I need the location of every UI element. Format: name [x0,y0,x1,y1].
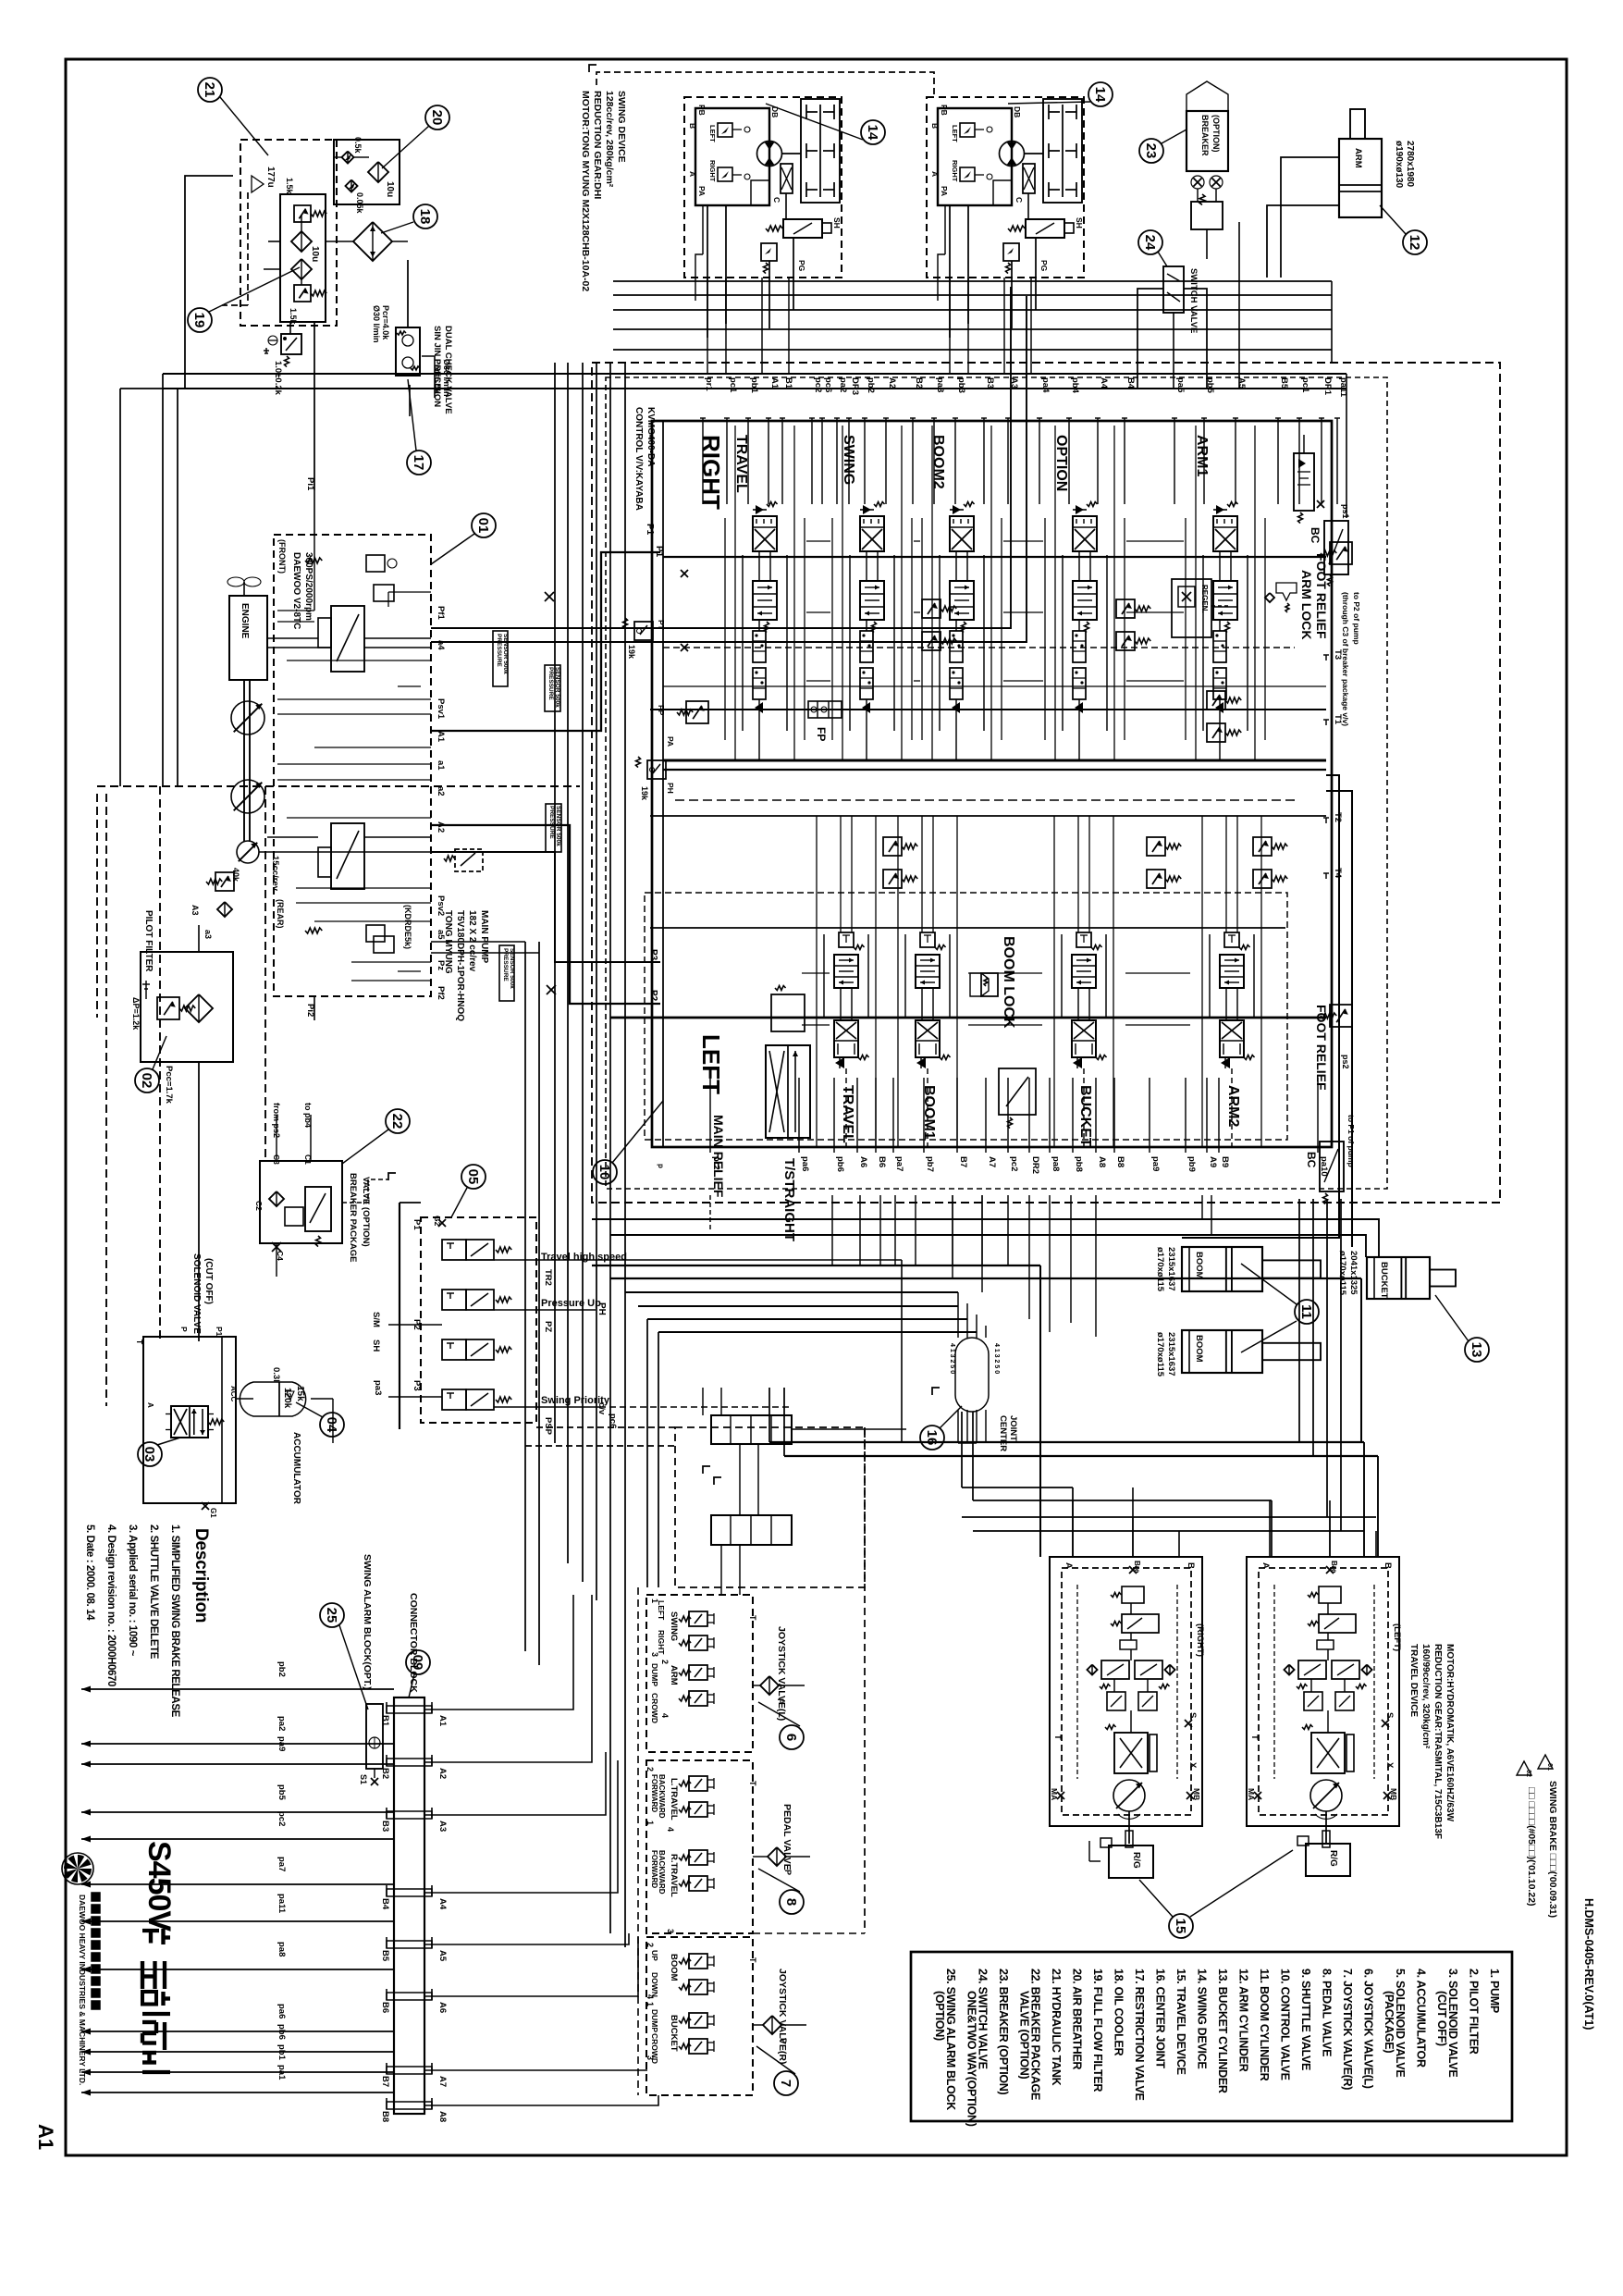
svg-text:01: 01 [1546,1763,1553,1771]
svg-text:pa3: pa3 [373,1380,383,1395]
svg-text:SWING DEVICE: SWING DEVICE [616,91,627,163]
svg-text:A2: A2 [437,1768,448,1779]
svg-text:MAIN RELIEF: MAIN RELIEF [711,1115,726,1198]
svg-text:JOYSTICK VALVE(L): JOYSTICK VALVE(L) [776,1626,787,1721]
svg-text:pb1: pb1 [749,377,759,394]
svg-text:LEFT: LEFT [657,1600,666,1621]
svg-text:24: 24 [1142,235,1158,251]
svg-text:3. Applied serial no. : 1090 ~: 3. Applied serial no. : 1090 ~ [127,1524,138,1657]
svg-text:160/99cc/rev, 320kg/cm²: 160/99cc/rev, 320kg/cm² [1420,1644,1431,1749]
svg-text:23. BREAKER (OPTION): 23. BREAKER (OPTION) [997,1969,1010,2095]
svg-text:DR1: DR1 [1322,377,1333,396]
svg-text:21. HYDRAULIC TANK: 21. HYDRAULIC TANK [1050,1969,1063,2086]
svg-text:BREAKER: BREAKER [1200,115,1210,156]
svg-text:MOTOR:TONG MYUNG M2X128CHB-10A: MOTOR:TONG MYUNG M2X128CHB-10A-02 [580,91,591,291]
svg-text:PB: PB [697,105,707,116]
svg-text:ARM: ARM [669,1665,679,1685]
svg-text:FOOT RELIEF: FOOT RELIEF [1314,1005,1329,1091]
svg-text:S: S [1384,1712,1395,1718]
svg-text:177u: 177u [265,167,276,188]
svg-text:B: B [1383,1562,1393,1569]
svg-text:BOOM LOCK: BOOM LOCK [1001,936,1016,1029]
svg-text:22: 22 [389,1114,405,1129]
svg-text:RIGHT: RIGHT [697,435,725,510]
svg-text:UP: UP [650,1950,659,1961]
svg-text:CONTROL V/V:KAYABA: CONTROL V/V:KAYABA [633,407,644,511]
svg-text:03: 03 [141,1447,157,1463]
svg-text:PG: PG [797,260,806,272]
svg-text:T3: T3 [1333,649,1343,660]
svg-text:A5: A5 [1236,377,1247,389]
svg-text:pc6: pc6 [823,377,833,392]
svg-text:pa9: pa9 [1150,1156,1161,1171]
svg-text:18: 18 [417,209,433,225]
svg-text:CENTER: CENTER [998,1415,1008,1451]
svg-text:3: 3 [650,1652,659,1657]
svg-text:B6: B6 [877,1156,887,1167]
svg-text:3: 3 [646,2055,655,2060]
svg-text:TRAVEL DEVICE: TRAVEL DEVICE [1408,1644,1419,1717]
svg-text:PP: PP [657,705,666,716]
svg-text:BC: BC [1305,1152,1318,1168]
svg-text:11. BOOM CYLINDER: 11. BOOM CYLINDER [1258,1969,1271,2081]
svg-text:A7: A7 [987,1156,997,1167]
svg-text:PRESSURE: PRESSURE [496,634,502,667]
svg-text:P1: P1 [412,1219,422,1230]
svg-text:P1: P1 [654,546,664,558]
svg-text:SWITCH VALVE: SWITCH VALVE [1188,268,1199,333]
svg-text:A1: A1 [34,2124,57,2150]
svg-text:DUAL CHECK VALVE: DUAL CHECK VALVE [443,326,453,414]
svg-text:SENSOR 500k: SENSOR 500k [509,948,515,989]
svg-text:Pi1: Pi1 [305,477,315,491]
svg-text:T/STRAIGHT: T/STRAIGHT [781,1158,797,1241]
svg-text:15. TRAVEL DEVICE: 15. TRAVEL DEVICE [1174,1969,1187,2075]
svg-text:BOOM: BOOM [669,1954,679,1981]
svg-text:SH: SH [1075,217,1084,228]
svg-text:BREAKER PACKAGE: BREAKER PACKAGE [348,1173,358,1262]
svg-text:DAEWOO V2-8TC: DAEWOO V2-8TC [291,552,301,629]
svg-text:BACKWARD: BACKWARD [658,1774,666,1819]
svg-text:SOLENOID VALVE: SOLENOID VALVE [191,1253,202,1334]
svg-text:T: T [748,1615,757,1621]
svg-text:01: 01 [475,518,491,534]
svg-text:pa7: pa7 [894,1156,904,1171]
svg-text:DOWN: DOWN [650,1972,659,1997]
svg-text:pb2: pb2 [866,377,876,393]
svg-text:PH: PH [596,1302,607,1315]
svg-text:RIGHT: RIGHT [708,160,717,182]
svg-text:SENSOR 500k: SENSOR 500k [502,634,509,674]
svg-text:A3: A3 [437,1821,448,1832]
svg-text:H.DMS-0405-REV.0(AT1): H.DMS-0405-REV.0(AT1) [1582,1898,1595,2030]
svg-text:pa2: pa2 [838,377,848,392]
svg-text:2315x1637: 2315x1637 [1166,1332,1176,1376]
svg-text:(REAR): (REAR) [276,899,285,929]
svg-text:DR3: DR3 [850,377,860,395]
svg-text:JOINT: JOINT [1008,1415,1018,1441]
svg-text:Psv1: Psv1 [436,698,446,720]
svg-text:pa6: pa6 [277,2004,287,2018]
svg-text:T: T [1052,1734,1063,1740]
svg-text:LEFT: LEFT [708,125,717,142]
svg-text:(CUT OFF): (CUT OFF) [1435,1991,1448,2046]
svg-text:(CUT OFF): (CUT OFF) [203,1258,214,1304]
svg-text:T: T [748,1957,757,1963]
svg-text:S450V: S450V [141,1841,177,1932]
svg-text:A8: A8 [437,2111,448,2122]
svg-text:BOOM: BOOM [1194,1252,1204,1279]
svg-text:pb5: pb5 [277,1784,287,1801]
svg-text:ø170xø115: ø170xø115 [1155,1332,1165,1377]
svg-text:BUCKET: BUCKET [1077,1085,1093,1147]
svg-text:05: 05 [465,1169,481,1185]
svg-text:14: 14 [1092,87,1108,103]
svg-text:JOYSTICK VALVE(R): JOYSTICK VALVE(R) [777,1969,788,2064]
svg-text:1. SIMPLIFIED SWING BRAKE RELE: 1. SIMPLIFIED SWING BRAKE RELEASE [169,1524,180,1718]
svg-text:4 1 3 2 5 0: 4 1 3 2 5 0 [949,1343,955,1374]
svg-text:Ø30 l/min: Ø30 l/min [372,305,381,343]
svg-text:X: X [1384,1762,1395,1769]
svg-text:1: 1 [650,1599,659,1603]
svg-text:ps2: ps2 [1341,1055,1350,1069]
svg-text:pa5: pa5 [1175,377,1186,393]
svg-text:ø170xø115: ø170xø115 [1155,1247,1165,1292]
svg-text:17. RESTRICTION VALVE: 17. RESTRICTION VALVE [1133,1969,1146,2101]
svg-text:P2: P2 [648,990,658,1002]
svg-text:FORWARD: FORWARD [650,1850,658,1888]
svg-text:PRESSURE: PRESSURE [548,806,555,839]
svg-text:PA: PA [940,186,949,196]
svg-text:B1: B1 [380,1715,390,1727]
svg-text:PG: PG [1039,260,1049,272]
svg-text:ø190xø130: ø190xø130 [1394,141,1404,189]
svg-text:S1: S1 [359,1774,368,1784]
svg-text:pa11: pa11 [277,1894,287,1914]
svg-text:04: 04 [324,1417,339,1433]
svg-text:120k: 120k [282,1388,292,1409]
svg-text:VALVE (OPTION): VALVE (OPTION) [1018,1991,1031,2079]
svg-text:20. AIR BREATHER: 20. AIR BREATHER [1071,1969,1084,2069]
svg-text:A4: A4 [437,1898,448,1910]
svg-text:B8: B8 [380,2111,390,2122]
svg-text:2: 2 [660,1660,670,1664]
svg-text:SH: SH [371,1339,381,1352]
svg-text:ARM LOCK: ARM LOCK [1299,570,1314,639]
svg-text:pb9: pb9 [1187,1156,1197,1172]
svg-text:13: 13 [1469,1342,1484,1358]
svg-text:3: 3 [666,1929,675,1933]
svg-text:10u: 10u [310,246,320,262]
svg-text:PRESSURE: PRESSURE [547,667,554,700]
svg-text:10. CONTROL VALVE: 10. CONTROL VALVE [1279,1969,1292,2080]
svg-text:12. ARM CYLINDER: 12. ARM CYLINDER [1237,1969,1250,2072]
svg-text:P: P [783,1870,793,1875]
svg-text:LEFT: LEFT [951,125,959,142]
svg-text:B9: B9 [1220,1156,1230,1167]
svg-text:Pcr=4.0k: Pcr=4.0k [381,305,390,340]
svg-text:pc1: pc1 [728,377,738,393]
svg-text:20: 20 [429,110,445,126]
svg-text:7: 7 [778,2080,793,2087]
svg-text:B2: B2 [914,377,924,389]
svg-text:B7: B7 [380,2076,390,2087]
svg-text:SH: SH [832,217,842,228]
svg-text:14: 14 [865,125,880,141]
svg-text:2: 2 [646,1767,655,1771]
svg-text:pa4: pa4 [1040,377,1051,393]
svg-text:1. PUMP: 1. PUMP [1488,1969,1501,2013]
svg-text:19: 19 [191,313,207,328]
svg-text:pb5: pb5 [1205,377,1215,394]
svg-text:A3: A3 [191,905,200,916]
svg-text:2041x1325: 2041x1325 [1348,1251,1359,1295]
svg-text:10: 10 [596,1165,612,1180]
svg-text:ARM2: ARM2 [1225,1085,1241,1127]
svg-text:B: B [930,123,940,129]
svg-text:T: T [135,1339,144,1345]
svg-text:02: 02 [139,1073,154,1089]
svg-text:6: 6 [783,1734,799,1741]
svg-text:c/v: c/v [596,1402,607,1415]
svg-text:KVMG400-DA: KVMG400-DA [646,407,656,466]
svg-text:SIN JIN PRECISION: SIN JIN PRECISION [432,326,442,407]
svg-text:pa8: pa8 [277,1942,287,1957]
svg-text:p: p [657,1164,665,1168]
svg-text:pc6: pc6 [608,1413,618,1428]
svg-text:ONE&TWO WAY(OPTION): ONE&TWO WAY(OPTION) [965,1991,978,2127]
svg-text:1.5k: 1.5k [285,178,294,195]
svg-text:B4: B4 [380,1898,390,1910]
svg-text:B8: B8 [1115,1156,1125,1167]
svg-text:(PACKAGE): (PACKAGE) [1383,1991,1396,2053]
svg-text:4: 4 [660,1713,670,1718]
svg-text:T5V180DPH-1POR-HNOQ: T5V180DPH-1POR-HNOQ [455,910,465,1021]
svg-text:B5: B5 [1279,377,1289,389]
svg-text:PT: PT [657,620,666,631]
svg-text:09: 09 [410,1655,425,1671]
svg-text:1: 1 [646,2002,655,2006]
svg-text:13. BUCKET CYLINDER: 13. BUCKET CYLINDER [1216,1969,1229,2093]
svg-text:S/M: S/M [371,1312,381,1327]
svg-text:5. Date : 2000. 08. 14: 5. Date : 2000. 08. 14 [84,1524,95,1621]
svg-text:R.TRAVEL: R.TRAVEL [669,1854,679,1897]
svg-text:MAIN PUMP: MAIN PUMP [479,910,489,964]
svg-text:ps1: ps1 [1341,504,1350,519]
svg-text:21: 21 [202,82,217,98]
svg-text:pa2: pa2 [277,1716,287,1731]
svg-text:B6: B6 [380,2002,390,2013]
svg-text:CROWD: CROWD [650,1693,659,1723]
svg-text:A: A [1064,1562,1074,1569]
svg-text:pb7: pb7 [925,1156,935,1172]
svg-text:(OPTION): (OPTION) [933,1991,946,2041]
svg-text:10u: 10u [385,181,395,197]
svg-text:8. PEDAL VALVE: 8. PEDAL VALVE [1321,1969,1334,2056]
svg-text:15cc/rev: 15cc/rev [270,856,280,892]
svg-text:18. OIL COOLER: 18. OIL COOLER [1113,1969,1125,2055]
svg-text:128cc/rev, 280kg/cm²: 128cc/rev, 280kg/cm² [604,91,615,188]
svg-text:FOOT RELIEF: FOOT RELIEF [1314,553,1329,639]
svg-text:0.05k: 0.05k [355,192,364,215]
svg-text:pa8: pa8 [1051,1156,1061,1171]
svg-text:B: B [688,123,697,129]
svg-text:a2: a2 [436,786,446,796]
svg-text:PB: PB [940,105,949,116]
svg-text:A3: A3 [1009,377,1019,389]
svg-text:pb2: pb2 [277,1661,287,1677]
svg-text:2: 2 [646,1943,655,1947]
svg-text:25: 25 [324,1608,339,1623]
svg-text:A1: A1 [437,1715,448,1727]
svg-text:A5: A5 [437,1950,448,1962]
svg-text:C2: C2 [254,1201,264,1211]
svg-text:TRAVEL: TRAVEL [840,1085,855,1143]
svg-text:B5: B5 [380,1950,390,1962]
svg-text:19k: 19k [627,645,636,660]
svg-text:FP: FP [815,727,828,741]
svg-text:L.TRAVEL: L.TRAVEL [669,1778,679,1821]
svg-text:PILOT FILTER: PILOT FILTER [143,910,154,972]
svg-text:BUCKET: BUCKET [1379,1262,1389,1299]
svg-text:1.0±0.2k: 1.0±0.2k [273,361,283,396]
svg-text:DUMP: DUMP [650,1663,659,1686]
svg-text:a1: a1 [436,760,446,771]
svg-text:A: A [688,171,697,177]
svg-text:BUCKET: BUCKET [669,2015,679,2052]
svg-text:Pf2: Pf2 [436,986,446,1000]
svg-text:19k: 19k [640,786,649,801]
svg-text:2780x1980: 2780x1980 [1405,141,1415,187]
svg-text:R/G: R/G [1131,1852,1141,1869]
svg-text:11: 11 [1298,1304,1314,1319]
svg-text:Pf1: Pf1 [436,606,446,621]
svg-text:ACCUMULATOR: ACCUMULATOR [291,1432,301,1505]
svg-text:pc2: pc2 [813,377,823,392]
svg-text:2. SHUTTLE VALVE DELETE: 2. SHUTTLE VALVE DELETE [148,1524,159,1660]
svg-text:4: 4 [646,1994,655,1999]
svg-text:pc1: pc1 [1300,377,1310,393]
svg-text:23: 23 [1143,143,1159,159]
svg-text:PSP: PSP [543,1417,553,1436]
svg-text:PZ: PZ [543,1321,553,1332]
svg-text:pc2: pc2 [1009,1156,1019,1171]
svg-text:Pcc=1.7k: Pcc=1.7k [164,1066,174,1105]
svg-text:19. FULL FLOW FILTER: 19. FULL FLOW FILTER [1091,1969,1104,2092]
svg-text:2. PILOT FILTER: 2. PILOT FILTER [1468,1969,1481,2055]
svg-text:A1: A1 [436,731,446,743]
svg-text:12: 12 [1407,235,1422,251]
svg-text:pb8: pb8 [1074,1156,1084,1172]
svg-text:ARM: ARM [1353,148,1363,168]
svg-text:15: 15 [1173,1919,1188,1934]
svg-text:8: 8 [783,1898,799,1906]
svg-text:pa3: pa3 [935,377,945,392]
svg-text:VALVE (OPTION): VALVE (OPTION) [361,1177,371,1247]
svg-text:C: C [1014,197,1024,203]
svg-text:(OPTION): (OPTION) [1211,115,1221,153]
svg-text:2315x1637: 2315x1637 [1166,1247,1176,1291]
svg-text:Travel high speed: Travel high speed [541,1252,627,1263]
svg-text:T2: T2 [1333,812,1343,822]
svg-text:□□ □□□□(#05□□)('01.10.22): □□ □□□□(#05□□)('01.10.22) [1526,1787,1537,1907]
svg-text:A9: A9 [1208,1156,1218,1167]
svg-text:SWING: SWING [669,1611,679,1641]
svg-text:REGEN.: REGEN. [1200,585,1209,613]
svg-text:9. SHUTTLE VALVE: 9. SHUTTLE VALVE [1299,1969,1312,2070]
svg-text:pb6: pb6 [277,2024,287,2040]
svg-text:ΔP=1.2k: ΔP=1.2k [131,997,141,1031]
svg-text:17: 17 [411,455,426,471]
svg-text:DAEWOO HEAVY INDUSTRIES & MACH: DAEWOO HEAVY INDUSTRIES & MACHINERY LTD. [78,1895,87,2085]
svg-text:pb4: pb4 [1070,377,1080,394]
svg-text:a3: a3 [203,930,213,939]
svg-text:pc2: pc2 [277,1811,287,1826]
svg-text:BOOM: BOOM [1194,1335,1204,1363]
svg-text:4. ACCUMULATOR: 4. ACCUMULATOR [1415,1969,1428,2068]
svg-text:pa1: pa1 [277,2065,287,2080]
svg-text:P1: P1 [215,1327,224,1337]
svg-text:BC: BC [1309,527,1322,544]
svg-text:Description: Description [191,1528,211,1623]
svg-text:6. JOYSTICK VALVE(L): 6. JOYSTICK VALVE(L) [1362,1969,1375,2089]
svg-text:4: 4 [666,1827,675,1832]
svg-text:ENGINE: ENGINE [240,603,250,639]
svg-text:4. Design revision no. : 2000H: 4. Design revision no. : 2000H0670 [105,1524,117,1686]
svg-text:14. SWING DEVICE: 14. SWING DEVICE [1196,1969,1209,2068]
svg-text:MOTOR:HYDROMATIK, A6VE160HZ/63: MOTOR:HYDROMATIK, A6VE160HZ/63W [1445,1644,1455,1822]
svg-text:DB: DB [1013,106,1022,117]
svg-text:B4: B4 [1125,377,1136,389]
svg-text:DR2: DR2 [1030,1156,1040,1174]
svg-text:ø170xø115: ø170xø115 [1337,1251,1347,1296]
svg-text:(LEFT): (LEFT) [1392,1623,1402,1651]
svg-text:pb3: pb3 [956,377,966,393]
svg-text:4 1 3 2 5 0: 4 1 3 2 5 0 [993,1343,1000,1374]
svg-text:pb1: pb1 [277,2044,287,2061]
svg-text:A1: A1 [769,377,780,389]
svg-text:G1: G1 [209,1508,217,1518]
svg-text:T1: T1 [1333,714,1343,725]
svg-text:SWING ALARM BLOCK(OPT.): SWING ALARM BLOCK(OPT.) [362,1554,373,1690]
svg-text:P3: P3 [648,949,658,961]
svg-text:A: A [930,171,940,177]
svg-text:A: A [146,1402,154,1408]
svg-text:LEFT: LEFT [697,1034,725,1094]
svg-text:pa6: pa6 [800,1156,810,1171]
svg-text:P: P [179,1327,189,1332]
svg-text:T: T [1249,1734,1260,1740]
svg-text:B3: B3 [985,377,995,389]
svg-text:1: 1 [646,1821,655,1825]
svg-text:FORWARD: FORWARD [650,1774,658,1812]
svg-text:X: X [1187,1762,1198,1769]
svg-text:C: C [772,197,781,203]
svg-text:A2: A2 [887,377,897,389]
svg-text:BACKWARD: BACKWARD [658,1850,666,1895]
svg-text:16. CENTER JOINT: 16. CENTER JOINT [1154,1969,1167,2068]
svg-text:B1: B1 [783,377,793,389]
svg-text:PEDAL VALVE: PEDAL VALVE [781,1804,793,1870]
svg-text:PA: PA [666,736,675,747]
svg-text:pa7: pa7 [277,1857,287,1871]
svg-text:T4: T4 [1333,868,1343,879]
svg-text:pr1: pr1 [704,377,714,392]
svg-text:A: A [1260,1562,1271,1569]
svg-text:RIGHT: RIGHT [951,160,959,182]
svg-text:A8: A8 [1097,1156,1107,1167]
svg-text:pb6: pb6 [835,1156,845,1172]
